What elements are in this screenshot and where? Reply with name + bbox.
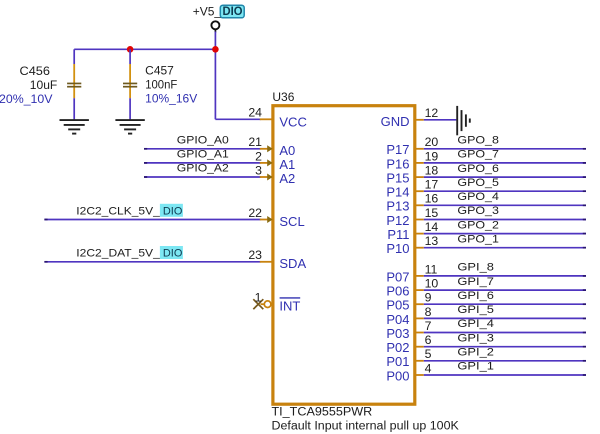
svg-text:P14: P14 bbox=[386, 185, 409, 200]
pin 19 (P16) stub bbox=[415, 162, 424, 164]
wire: top horizontal rail to capacitors bbox=[74, 48, 215, 50]
pin 2 (A1) stub bbox=[260, 162, 273, 164]
ground bbox=[60, 120, 89, 134]
pin 3 (A2) stub bbox=[260, 176, 273, 178]
svg-text:GPIO_A0: GPIO_A0 bbox=[177, 134, 229, 146]
svg-text:A0: A0 bbox=[279, 143, 295, 158]
svg-text:GPO_8: GPO_8 bbox=[457, 135, 499, 147]
svg-text:DIO: DIO bbox=[223, 6, 243, 18]
pin 14 (P11) stub bbox=[415, 233, 424, 235]
wire: net GPIO_A2 bbox=[144, 176, 261, 178]
wire: net GPO_1 bbox=[424, 247, 586, 249]
svg-text:10uF: 10uF bbox=[30, 80, 58, 92]
svg-text:GPO_3: GPO_3 bbox=[457, 205, 499, 217]
svg-text:Default Input internal pull up: Default Input internal pull up 100K bbox=[272, 420, 460, 432]
pin 24 (VCC) stub bbox=[260, 118, 273, 120]
svg-text:3: 3 bbox=[255, 163, 262, 177]
net label DIO highlight (CLK) bbox=[160, 204, 183, 218]
wire: cap bottom lead bbox=[129, 98, 131, 119]
wire: net GPO_6 bbox=[424, 176, 586, 178]
svg-text:P12: P12 bbox=[386, 213, 409, 228]
svg-text:DIO: DIO bbox=[163, 248, 183, 260]
svg-text:17: 17 bbox=[425, 178, 439, 192]
svg-text:GPI_1: GPI_1 bbox=[457, 361, 494, 373]
svg-text:P02: P02 bbox=[386, 340, 409, 355]
pin 1 inversion bubble bbox=[264, 301, 271, 308]
pin 9 (P05) stub bbox=[415, 303, 424, 305]
wire: net GPO_4 bbox=[424, 204, 586, 206]
svg-text:21: 21 bbox=[248, 135, 262, 149]
pin name INT (active low) bbox=[279, 298, 300, 314]
svg-text:13: 13 bbox=[425, 234, 439, 248]
svg-text:P17: P17 bbox=[386, 142, 409, 157]
capacitor symbol bbox=[123, 64, 137, 98]
svg-text:GPO_1: GPO_1 bbox=[457, 233, 499, 245]
wire: cap top lead bbox=[129, 49, 131, 64]
svg-text:A2: A2 bbox=[279, 171, 295, 186]
wire: VCC horizontal into pin 24 bbox=[215, 118, 260, 120]
pin 21 input arrow bbox=[267, 145, 272, 152]
svg-text:SDA: SDA bbox=[279, 256, 306, 271]
ground bbox=[115, 120, 144, 134]
svg-text:18: 18 bbox=[425, 164, 439, 178]
wire: net GPI_2 bbox=[424, 360, 586, 362]
wire: net GPO_3 bbox=[424, 219, 586, 221]
svg-text:14: 14 bbox=[425, 220, 439, 234]
wire: GND to ground bbox=[424, 119, 457, 121]
svg-text:P01: P01 bbox=[386, 354, 409, 369]
wire: net GPIO_A0 bbox=[144, 148, 261, 150]
wire: net GPIO_A1 bbox=[144, 162, 261, 164]
capacitor symbol bbox=[67, 64, 81, 98]
svg-text:U36: U36 bbox=[272, 90, 294, 104]
pin 18 (P15) stub bbox=[415, 176, 424, 178]
pin 3 input arrow bbox=[267, 174, 272, 181]
svg-text:6: 6 bbox=[425, 333, 432, 347]
pin 20 (P17) stub bbox=[415, 148, 424, 150]
+V5 terminal circle bbox=[211, 21, 219, 29]
svg-text:10%_16V: 10%_16V bbox=[145, 94, 197, 106]
DIO port box (cyan) bbox=[220, 5, 244, 18]
svg-text:GPO_6: GPO_6 bbox=[457, 163, 499, 175]
wire: net GPO_2 bbox=[424, 233, 586, 235]
svg-text:9: 9 bbox=[425, 291, 432, 305]
pin 22 input arrow bbox=[267, 216, 272, 223]
svg-text:P10: P10 bbox=[386, 241, 409, 256]
svg-text:GPI_6: GPI_6 bbox=[457, 290, 494, 302]
wire: cap bottom lead bbox=[73, 98, 75, 119]
svg-text:P15: P15 bbox=[386, 171, 409, 186]
svg-text:GPI_2: GPI_2 bbox=[457, 347, 494, 359]
svg-text:GPO_4: GPO_4 bbox=[457, 191, 499, 203]
svg-text:GPI_4: GPI_4 bbox=[457, 318, 494, 330]
pin 13 (P10) stub bbox=[415, 247, 424, 249]
svg-text:GPO_7: GPO_7 bbox=[457, 149, 499, 161]
svg-text:P07: P07 bbox=[386, 269, 409, 284]
svg-text:GND: GND bbox=[381, 114, 410, 129]
pin 10 (P06) stub bbox=[415, 289, 424, 291]
junction (rail / C457) bbox=[127, 46, 134, 53]
svg-text:20%_10V: 20%_10V bbox=[0, 94, 53, 106]
svg-text:1: 1 bbox=[255, 291, 262, 305]
svg-text:INT: INT bbox=[279, 299, 300, 314]
svg-text:VCC: VCC bbox=[279, 114, 306, 129]
pin 8 (P04) stub bbox=[415, 317, 424, 319]
svg-text:P03: P03 bbox=[386, 326, 409, 341]
wire: net I2C2_CLK_5V_DIO bbox=[44, 219, 260, 221]
pin 5 (P01) stub bbox=[415, 360, 424, 362]
svg-text:P13: P13 bbox=[386, 199, 409, 214]
svg-text:I2C2_DAT_5V_: I2C2_DAT_5V_ bbox=[76, 248, 160, 260]
svg-text:22: 22 bbox=[248, 206, 262, 220]
pin 2 input arrow bbox=[267, 159, 272, 166]
svg-text:8: 8 bbox=[425, 305, 432, 319]
svg-text:TI_TCA9555PWR: TI_TCA9555PWR bbox=[272, 406, 373, 418]
wire: net GPI_7 bbox=[424, 289, 586, 291]
pin 1 (INT) stub bbox=[261, 303, 265, 305]
wire: net GPI_8 bbox=[424, 275, 586, 277]
pin 15 (P12) stub bbox=[415, 219, 424, 221]
wire: net GPI_6 bbox=[424, 303, 586, 305]
svg-text:7: 7 bbox=[425, 319, 432, 333]
pin 4 (P00) stub bbox=[415, 374, 424, 376]
svg-text:P00: P00 bbox=[386, 368, 409, 383]
svg-text:GPI_8: GPI_8 bbox=[457, 262, 494, 274]
pin 23 (SDA) stub bbox=[260, 261, 273, 263]
wire: net I2C2_DAT_5V_DIO bbox=[44, 261, 260, 263]
svg-text:GPI_3: GPI_3 bbox=[457, 332, 494, 344]
svg-text:P04: P04 bbox=[386, 312, 409, 327]
svg-text:20: 20 bbox=[425, 135, 439, 149]
svg-text:I2C2_CLK_5V_: I2C2_CLK_5V_ bbox=[76, 205, 160, 217]
svg-text:DIO: DIO bbox=[163, 205, 183, 217]
svg-text:GPO_2: GPO_2 bbox=[457, 219, 499, 231]
pin 1 no-connect X bbox=[253, 299, 263, 309]
svg-text:10: 10 bbox=[425, 277, 439, 291]
svg-text:4: 4 bbox=[425, 361, 432, 375]
wire: net GPO_5 bbox=[424, 190, 586, 192]
wire: net GPI_3 bbox=[424, 346, 586, 348]
pin 12 (GND) stub bbox=[415, 119, 424, 121]
wire: net GPI_4 bbox=[424, 332, 586, 334]
svg-text:19: 19 bbox=[425, 149, 439, 163]
wire: +V5 vertical drop bbox=[214, 29, 216, 32]
wire: net GPO_7 bbox=[424, 162, 586, 164]
pin 22 (SCL) stub bbox=[260, 219, 273, 221]
pin 6 (P02) stub bbox=[415, 346, 424, 348]
ground (rotated, at pin 12) bbox=[457, 106, 470, 135]
net label DIO highlight (DAT) bbox=[160, 246, 183, 260]
svg-text:2: 2 bbox=[255, 149, 262, 163]
wire: net GPI_5 bbox=[424, 317, 586, 319]
pin 11 (P07) stub bbox=[415, 275, 424, 277]
svg-text:C457: C457 bbox=[145, 66, 174, 78]
svg-text:12: 12 bbox=[425, 106, 439, 120]
svg-text:15: 15 bbox=[425, 206, 439, 220]
svg-text:24: 24 bbox=[248, 106, 262, 120]
op-amp/IC U36 body bbox=[273, 106, 415, 405]
pin 7 (P03) stub bbox=[415, 332, 424, 334]
svg-text:P11: P11 bbox=[387, 227, 409, 242]
svg-text:16: 16 bbox=[425, 192, 439, 206]
junction (rail / +V5 drop) bbox=[212, 46, 219, 53]
svg-text:11: 11 bbox=[425, 262, 438, 276]
svg-text:P06: P06 bbox=[386, 284, 409, 299]
svg-text:GPO_5: GPO_5 bbox=[457, 177, 499, 189]
svg-text:P05: P05 bbox=[386, 298, 409, 313]
pin 21 (A0) stub bbox=[260, 148, 273, 150]
wire: net GPI_1 bbox=[424, 374, 586, 376]
svg-text:P16: P16 bbox=[386, 156, 409, 171]
svg-text:SCL: SCL bbox=[279, 214, 304, 229]
svg-text:GPI_5: GPI_5 bbox=[457, 304, 494, 316]
svg-text:23: 23 bbox=[248, 248, 262, 262]
wire: cap top lead bbox=[73, 49, 75, 64]
svg-text:A1: A1 bbox=[279, 157, 295, 172]
svg-text:5: 5 bbox=[425, 347, 432, 361]
svg-text:C456: C456 bbox=[20, 66, 51, 78]
pin 17 (P14) stub bbox=[415, 190, 424, 192]
svg-text:GPI_7: GPI_7 bbox=[457, 276, 494, 288]
wire: net GPO_8 bbox=[424, 148, 586, 150]
pin 16 (P13) stub bbox=[415, 204, 424, 206]
svg-text:GPIO_A2: GPIO_A2 bbox=[177, 163, 229, 175]
svg-text:100nF: 100nF bbox=[145, 80, 177, 92]
svg-text:GPIO_A1: GPIO_A1 bbox=[177, 148, 229, 160]
svg-text:+V5_: +V5_ bbox=[193, 4, 222, 18]
